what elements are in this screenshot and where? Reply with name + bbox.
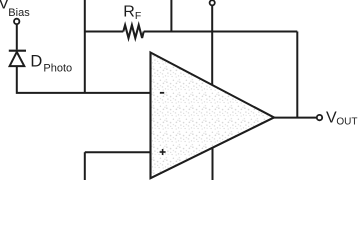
svg-text:D: D: [30, 52, 42, 70]
op-amp inverting input marker (-): [160, 92, 164, 94]
wire: [296, 32, 298, 118]
op-amp non-inverting input marker (+): [160, 149, 166, 155]
wire: [84, 152, 86, 180]
svg-text:Photo: Photo: [43, 62, 72, 74]
resistor RF: [85, 25, 297, 38]
svg-text:V: V: [326, 109, 337, 126]
wire: [212, 147, 214, 180]
terminal V+: [210, 0, 215, 5]
wire: [170, 0, 172, 32]
terminal V_OUT: [317, 115, 322, 120]
label R_F: [123, 3, 141, 22]
svg-text:R: R: [123, 3, 135, 20]
photodiode D_Photo triangle: [10, 52, 25, 66]
label D_Photo: [30, 52, 72, 74]
svg-text:F: F: [135, 10, 141, 22]
wire: [85, 151, 151, 153]
label V_OUT: [326, 109, 358, 127]
wire: [273, 117, 317, 119]
photodiode D_Photo cathode bar: [9, 50, 26, 52]
wire: [16, 24, 18, 49]
svg-text:Bias: Bias: [8, 7, 30, 19]
wire: [84, 0, 86, 93]
terminal V_Bias: [14, 19, 19, 24]
label V_Bias: [0, 0, 30, 19]
wire: [17, 66, 151, 93]
op-amp U1: [151, 53, 275, 179]
svg-text:OUT: OUT: [336, 117, 357, 128]
wire: [211, 6, 213, 86]
